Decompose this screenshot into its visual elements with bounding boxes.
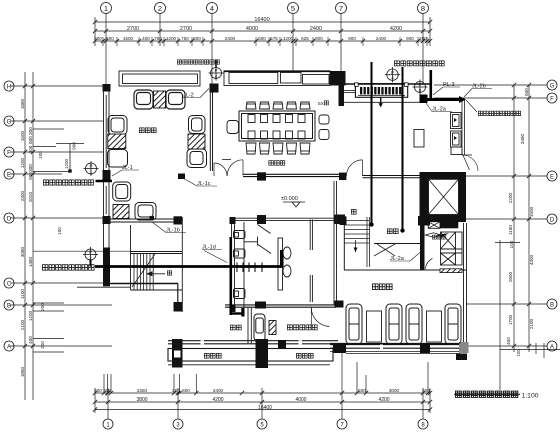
left dim chains: [10, 72, 112, 400]
reception center hatch table: [154, 91, 166, 108]
main drain line horizontal: [95, 265, 283, 268]
pipe labels latin: [112, 82, 492, 263]
svg-text:200: 200: [419, 36, 427, 41]
washroom stall partition: [244, 222, 271, 312]
top dim line 16400: [95, 21, 430, 23]
svg-text:1: 1: [104, 4, 108, 13]
svg-text:400: 400: [28, 336, 33, 344]
window band reception top: [119, 71, 200, 86]
plumbing: [33, 60, 466, 317]
window band conference top: [224, 71, 330, 86]
room label elevator bar: [372, 284, 392, 290]
top dim text 16400: [127, 17, 402, 32]
svg-text:2400: 2400: [213, 388, 224, 393]
door to right room above elevator: [462, 154, 478, 171]
svg-text:1200: 1200: [64, 158, 69, 169]
svg-text:P: P: [89, 164, 92, 169]
washroom east wall: [334, 181, 337, 305]
svg-text:1200: 1200: [166, 36, 177, 41]
svg-text:1180: 1180: [508, 225, 513, 235]
svg-text:2700: 2700: [180, 26, 192, 32]
note pipe to outdoor net (top center): [177, 60, 219, 65]
svg-text:B: B: [7, 303, 11, 309]
svg-text:1700: 1700: [508, 314, 513, 325]
column at reception south-east: [174, 216, 183, 224]
bottom right corner marks: [500, 343, 560, 358]
JL-2a horizontal pipe: [424, 98, 460, 101]
room label conference: [269, 161, 285, 166]
washroom inner partition: [310, 220, 312, 303]
reception sofa top row: [134, 90, 185, 109]
bar sofa 3: [406, 304, 422, 344]
niche box corridor: [414, 130, 424, 148]
svg-text:4200: 4200: [390, 26, 402, 32]
right grid bubbles: [547, 80, 557, 351]
svg-text:4000: 4000: [246, 26, 258, 32]
conference door right: [346, 160, 362, 176]
svg-text:200: 200: [40, 341, 45, 349]
top wall segment right of conference: [330, 71, 346, 86]
svg-text:100: 100: [516, 349, 521, 357]
svg-text:625: 625: [301, 36, 309, 41]
svg-text:900: 900: [72, 142, 77, 150]
svg-text:P: P: [89, 250, 92, 255]
conference south columns: [257, 172, 266, 180]
note pipe to outdoor net (left lower): [42, 265, 94, 271]
svg-text:1500: 1500: [123, 36, 134, 41]
svg-text:3000: 3000: [389, 388, 400, 393]
label light well 1: [204, 353, 221, 358]
svg-text:P: P: [418, 82, 421, 87]
svg-text:C: C: [7, 281, 12, 287]
svg-text:900: 900: [348, 36, 356, 41]
stair break diagonal: [374, 244, 395, 256]
stair treads: [132, 254, 155, 291]
svg-text:1860: 1860: [20, 98, 25, 109]
building bottom-left wall: [103, 283, 178, 285]
small wc below elevator fixtures: [425, 222, 462, 273]
svg-text:4: 4: [210, 4, 214, 13]
corridor top wall right: [344, 101, 420, 103]
svg-text:100: 100: [57, 227, 62, 235]
svg-text:2200: 2200: [508, 192, 513, 203]
corridor south wall (washroom north): [231, 217, 336, 219]
top grid bubbles: [101, 3, 429, 14]
bar sofa 1: [346, 304, 362, 344]
svg-text:2300: 2300: [20, 190, 25, 201]
driver lounge door: [311, 308, 329, 330]
svg-text:P: P: [391, 70, 394, 75]
main drain end cap: [280, 250, 284, 267]
svg-text:600: 600: [182, 388, 190, 393]
bar sofa 2: [386, 304, 402, 344]
svg-text:3480: 3480: [520, 133, 525, 144]
svg-text:A: A: [7, 344, 11, 350]
svg-text:300: 300: [28, 164, 33, 172]
bar table 2: [427, 311, 442, 342]
svg-text:3350: 3350: [137, 388, 148, 393]
right rotated dims: [506, 88, 534, 345]
svg-text:600: 600: [106, 36, 114, 41]
svg-text:3080: 3080: [20, 246, 25, 257]
bottom grid bubbles: [103, 419, 428, 429]
conference chairs above: [246, 102, 310, 109]
label light well 2: [296, 353, 313, 358]
riser pipe corridor 2: [402, 67, 404, 230]
svg-text:1200: 1200: [283, 36, 294, 41]
svg-text:575: 575: [270, 36, 278, 41]
wall left of small wc: [420, 225, 425, 270]
svg-text:900: 900: [315, 36, 323, 41]
top minor ticks: [103, 37, 427, 46]
svg-text:300: 300: [28, 145, 33, 153]
bar table 1: [367, 311, 382, 342]
conference south wall: [243, 173, 346, 175]
corridor walls right of stairs: [374, 243, 420, 245]
drain symbol top-right 1: [385, 67, 400, 82]
svg-text:2100: 2100: [20, 319, 25, 330]
svg-text:800: 800: [193, 36, 201, 41]
left rotated dims: [20, 98, 77, 377]
washroom west wall: [232, 217, 235, 312]
svg-text:8: 8: [421, 4, 425, 13]
conference chairs below: [246, 143, 310, 154]
light well band: [168, 341, 338, 365]
svg-text:B: B: [550, 302, 554, 308]
left inlet pipe 1: [96, 180, 113, 183]
svg-text:4300: 4300: [529, 254, 534, 265]
room label reception: [139, 128, 156, 133]
svg-text:5X: 5X: [318, 101, 325, 107]
reception right sofa column: [187, 116, 207, 168]
stair west wall lower: [343, 225, 345, 271]
note to second floor lounge: [478, 111, 520, 116]
wall left of toilet top: [339, 84, 345, 106]
stair up arrow: [147, 272, 165, 276]
left exterior wall with windows: [104, 86, 110, 285]
svg-text:100: 100: [38, 151, 43, 159]
water feature divider: [247, 307, 249, 344]
svg-text:1480: 1480: [28, 256, 33, 267]
bar east wall: [464, 223, 467, 352]
svg-text:600: 600: [28, 136, 33, 144]
svg-text:300: 300: [28, 127, 33, 135]
washroom south wall: [225, 304, 336, 306]
top dim line majors: [95, 30, 430, 32]
svg-text:200: 200: [40, 303, 45, 311]
washroom riser pipe: [230, 237, 233, 315]
left mini dim lines: [33, 251, 131, 352]
label water pump: [387, 229, 398, 234]
riser JL-1b block: [150, 216, 155, 220]
bottom dim lines: [95, 353, 430, 419]
PL-3 riser pipe: [429, 70, 432, 101]
svg-text:4200: 4200: [378, 397, 389, 403]
svg-text:5: 5: [291, 4, 295, 13]
drain symbol left 1: [84, 161, 99, 176]
svg-text:500: 500: [358, 388, 366, 393]
elevation mark: [281, 196, 305, 207]
reception east door arc: [214, 160, 243, 176]
svg-text:F: F: [550, 96, 554, 102]
svg-text:E: E: [7, 172, 11, 178]
label down: [351, 209, 356, 214]
svg-text:7: 7: [339, 4, 343, 13]
stairwell left box: [131, 217, 183, 312]
svg-text:750: 750: [181, 36, 189, 41]
furniture: [108, 90, 462, 344]
svg-text:2400: 2400: [376, 36, 387, 41]
svg-text:1200: 1200: [28, 310, 33, 321]
right-middle stair treads (down): [344, 217, 370, 267]
svg-text:400: 400: [506, 337, 511, 345]
column left of right stairs: [340, 216, 347, 225]
svg-text:2400: 2400: [310, 26, 322, 32]
reception right hatch: [188, 134, 205, 149]
drain symbol top-center: [209, 66, 224, 81]
left wall columns: [103, 170, 111, 181]
washroom vanity counter: [278, 238, 291, 290]
junction block: [420, 95, 428, 104]
conference end chairs: [227, 115, 329, 140]
svg-text:600: 600: [524, 88, 529, 96]
top dim line minors: [95, 40, 430, 42]
svg-text:16400: 16400: [254, 17, 269, 23]
svg-text:3800: 3800: [136, 397, 147, 403]
svg-text:16400: 16400: [258, 405, 272, 411]
svg-text:±0.000: ±0.000: [281, 196, 298, 202]
fixture tees on main: [237, 263, 262, 273]
svg-text:600: 600: [258, 36, 266, 41]
top grid axis lines: [95, 14, 430, 104]
svg-text:4000: 4000: [295, 397, 306, 403]
wall column between reception and conference: [210, 84, 219, 93]
svg-text:P: P: [214, 68, 217, 73]
svg-text:F: F: [7, 150, 11, 156]
svg-text:100: 100: [509, 240, 514, 248]
svg-text:1100: 1100: [20, 289, 25, 299]
drain symbol top-right 2: [413, 80, 428, 95]
svg-text:D: D: [7, 216, 12, 222]
wall corner column top-left: [103, 84, 111, 92]
conference chairs inside: [248, 115, 305, 140]
svg-text:E: E: [550, 174, 554, 180]
washroom toilets: [234, 231, 246, 299]
conference table: [239, 111, 315, 141]
reception east wall: [209, 92, 211, 171]
driver lounge car: [254, 314, 265, 341]
svg-text:400: 400: [142, 36, 150, 41]
svg-text:2400: 2400: [225, 36, 236, 41]
title bar: [454, 391, 539, 399]
svg-text:1860: 1860: [20, 366, 25, 377]
svg-text:2020: 2020: [28, 191, 33, 202]
niche above elevator: [451, 147, 462, 155]
toilet fixture block: [355, 83, 409, 108]
svg-text:2600: 2600: [508, 271, 513, 282]
reception left sofa column: [108, 116, 131, 202]
svg-text:2700: 2700: [127, 26, 139, 32]
svg-text:1200: 1200: [20, 157, 25, 168]
svg-text:1:100: 1:100: [522, 392, 539, 399]
reception mid chair and hatch: [135, 203, 156, 221]
left grid bubbles: [4, 81, 14, 351]
svg-text:G: G: [7, 119, 12, 125]
radiator boxes right room: [451, 113, 462, 148]
corridor north wall by elevator: [363, 175, 421, 177]
riser JL-1c block: [178, 174, 185, 180]
label water feature: [230, 325, 241, 330]
cjk labels: [42, 60, 520, 358]
svg-text:2100: 2100: [529, 318, 534, 329]
bar sofa 4: [445, 304, 461, 344]
toilet top wall: [345, 83, 430, 85]
note pipe to outdoor net (top right): [394, 61, 444, 66]
bottom dim texts: [94, 388, 430, 393]
label up: [167, 271, 172, 276]
svg-text:1500: 1500: [20, 130, 25, 141]
drawing title glyphs: [455, 391, 518, 398]
svg-text:1500: 1500: [529, 206, 534, 217]
svg-text:4200: 4200: [212, 397, 223, 403]
right dim chains: [434, 85, 547, 390]
note pipe to outdoor net (left upper): [43, 180, 93, 185]
svg-text:900: 900: [28, 172, 33, 180]
right room east wall upper: [462, 99, 472, 155]
window slit left of toilet block: [344, 90, 356, 92]
svg-text:2: 2: [158, 4, 162, 13]
walls: [77, 71, 478, 368]
reception south wall: [103, 218, 182, 220]
bar south wall: [330, 343, 466, 345]
drain symbol left 2: [83, 247, 98, 262]
svg-text:900: 900: [406, 36, 414, 41]
wall down from bottom-left: [177, 284, 179, 312]
elevator shaft: [420, 173, 466, 222]
svg-text:G: G: [550, 83, 555, 89]
riser pipe corridor 1: [371, 62, 373, 223]
label dresser small: [432, 235, 446, 239]
driver lounge hatch box: [269, 321, 276, 335]
room label driver lounge: [287, 325, 317, 330]
entry hall wall stub: [222, 159, 231, 161]
reception left hatch: [108, 134, 126, 149]
title underline: [454, 393, 520, 395]
svg-text:H: H: [7, 84, 11, 90]
svg-text:D: D: [550, 217, 555, 223]
